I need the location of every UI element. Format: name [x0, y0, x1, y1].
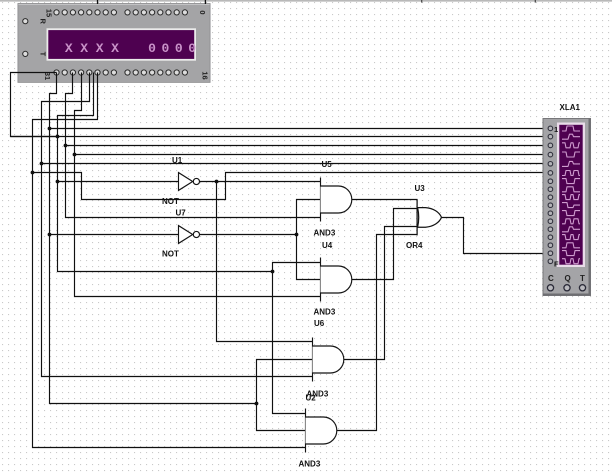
svg-text:NOT: NOT — [162, 250, 179, 259]
top window edge remnant — [0, 0, 612, 2]
junction L4/VF — [73, 153, 77, 157]
wire net L1 to XLA1 pin1 — [50, 128, 551, 130]
wire stub off-screen A — [421, 0, 423, 3]
svg-text:F: F — [554, 260, 559, 269]
wire net L2 to XLA1 pin2 — [11, 136, 551, 138]
wire U3 output to XLA1 pin16 — [442, 218, 551, 254]
junction L2/VD/wrap — [56, 135, 60, 139]
junction VD line split — [271, 270, 275, 274]
svg-text:X: X — [65, 41, 73, 56]
junction L6/VA — [31, 171, 35, 175]
wire junction to U4 middle input — [297, 235, 321, 280]
svg-text:U1: U1 — [172, 156, 183, 165]
svg-text:NOT: NOT — [162, 197, 179, 206]
svg-text:0: 0 — [161, 41, 169, 56]
logic analyser XLA1 body — [543, 119, 591, 296]
wire LCD pin26 drop to bus VD — [58, 73, 94, 137]
svg-text:XLA1: XLA1 — [560, 103, 581, 112]
svg-text:T: T — [39, 52, 48, 57]
svg-text:X: X — [111, 41, 119, 56]
wire U2 output to U3 input4 — [337, 235, 418, 431]
NOT gate U1 — [179, 173, 200, 191]
svg-text:Q: Q — [565, 274, 571, 283]
wire U4 output to U3 input2 — [352, 209, 418, 280]
wire U5 output to U3 input1 — [352, 199, 418, 201]
wire U1 output branch to U6 top input — [217, 182, 313, 342]
XLA1 bottom pin circles C Q T — [547, 285, 585, 291]
svg-text:U3: U3 — [415, 184, 426, 193]
LCD screen — [47, 28, 197, 60]
svg-text:OR4: OR4 — [406, 241, 423, 250]
svg-text:0: 0 — [198, 10, 207, 14]
wire LCD pin31 wrap-around to net D3 — [11, 73, 58, 137]
LCD display module U8 body — [18, 4, 210, 83]
LCD left pin T — [23, 51, 28, 56]
wire branch U6 middle input — [257, 360, 313, 404]
junction U1 input tap — [56, 180, 60, 184]
svg-text:1: 1 — [554, 125, 558, 134]
AND3 gate U4 — [321, 258, 352, 302]
svg-text:AND3: AND3 — [299, 460, 321, 469]
wire bus VC down segment — [50, 129, 257, 404]
junction VC line split — [255, 402, 259, 406]
wire bus VB down to U6 bottom input — [42, 164, 313, 377]
wire branch U2 middle input — [257, 404, 306, 431]
wire LCD pin31 drop to bus VC — [50, 73, 57, 129]
NOT gate U7 — [179, 226, 200, 244]
svg-text:15: 15 — [45, 9, 54, 17]
wire U7 output to junction — [200, 234, 297, 236]
junction U7 output split — [295, 233, 299, 237]
svg-text:31: 31 — [43, 72, 52, 80]
svg-text:U5: U5 — [322, 160, 333, 169]
wire branch U4 top input — [273, 263, 321, 272]
svg-text:U4: U4 — [322, 241, 333, 250]
LCD screen characters X X X X — [65, 41, 119, 56]
wire bus VA down to U2 bottom input — [33, 173, 306, 448]
XLA1 screen — [557, 123, 585, 268]
wire branch U2 top input — [273, 272, 306, 414]
wire LCD pin29 drop to bus VE — [66, 73, 73, 146]
wire net L4 to XLA1 pin4 — [75, 154, 551, 156]
wire net L6 detour to XLA1 pin6 — [33, 173, 551, 200]
svg-text:16: 16 — [201, 71, 210, 79]
svg-text:U7: U7 — [176, 209, 187, 218]
svg-text:R: R — [39, 18, 48, 24]
junction U7 input tap — [48, 233, 52, 237]
svg-text:T: T — [580, 274, 585, 283]
wire net L3 to XLA1 pin3 — [66, 145, 551, 147]
wire U1 output to U5 top input — [200, 181, 321, 183]
AND3 gate U5 — [321, 178, 352, 222]
wire bus VF down to U4 bottom input — [75, 155, 321, 297]
wire LCD pin25 drop to bus VA — [33, 73, 98, 173]
svg-text:X: X — [80, 41, 88, 56]
wire junction to U5 middle input — [297, 200, 321, 235]
wire stub off-screen B — [534, 0, 536, 3]
wire bus VE down to U5 bottom input — [66, 146, 321, 218]
wire LCD pin28 drop to bus VF — [75, 73, 82, 155]
svg-text:AND3: AND3 — [314, 229, 336, 238]
LCD bottom pin row (pins 23..16) — [125, 70, 188, 75]
wire U6 output to U3 input3 — [344, 227, 418, 360]
XLA1 waveform traces — [562, 126, 580, 264]
wire LCD pin27 drop to bus VB — [42, 73, 90, 164]
OR4 gate U3 — [417, 199, 441, 235]
svg-text:X: X — [96, 41, 104, 56]
svg-text:U6: U6 — [314, 319, 325, 328]
svg-text:U2: U2 — [306, 394, 317, 403]
LCD top wire stub 1 — [97, 0, 99, 4]
junction L5/VB — [40, 162, 44, 166]
LCD screen characters 0 0 0 0 — [148, 41, 196, 56]
wire bus VD down segment — [58, 137, 273, 272]
junction L1/VC — [48, 127, 52, 131]
svg-text:0: 0 — [148, 41, 156, 56]
junction L3/VE — [64, 144, 68, 148]
wire U7 input from VC — [50, 234, 179, 236]
LCD top pin row (pins 7..0) — [125, 10, 188, 15]
svg-text:0: 0 — [175, 41, 183, 56]
LCD top pin row (pins 15..8) — [54, 10, 117, 15]
junction U1 output branch — [215, 180, 219, 184]
LCD left pin R — [23, 19, 28, 24]
wire net L5 to XLA1 pin5 — [42, 163, 551, 165]
AND3 gate U6 — [313, 338, 344, 382]
AND3 gate U2 — [306, 409, 337, 453]
svg-text:AND3: AND3 — [314, 308, 336, 317]
LCD bottom pin row (pins 31..24) — [54, 70, 117, 75]
svg-text:C: C — [548, 274, 554, 283]
LCD top wire stub 2 — [204, 0, 206, 4]
XLA1 input pin circles 1..F — [548, 126, 553, 264]
svg-text:0: 0 — [188, 41, 196, 56]
wire U1 input from VD — [58, 181, 179, 183]
